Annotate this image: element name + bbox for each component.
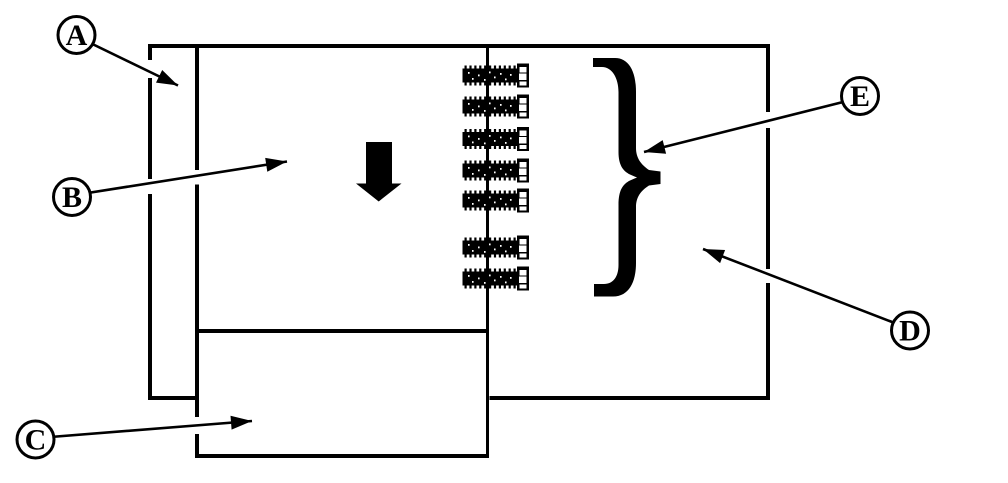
curly brace (grouping bolts, part E) — [593, 58, 661, 297]
bolt fastener (cy=139) — [463, 127, 530, 151]
bottom edge of box C — [195, 454, 489, 458]
bolt fastener (cy=200.5) — [463, 189, 530, 213]
label circle A — [58, 17, 95, 54]
bolt fastener (cy=247.5) — [463, 236, 530, 260]
leader arrow E — [644, 99, 855, 154]
divider line between B and C — [195, 329, 489, 333]
left plate edge wire (part B left edge) — [195, 44, 199, 458]
lower box interior mask (part C) — [195, 329, 490, 458]
label circle B — [54, 179, 91, 216]
label circle D — [892, 312, 929, 349]
leader arrow D — [703, 249, 905, 327]
bolt fastener (cy=106.5) — [463, 95, 530, 119]
leader arrow A — [80, 38, 178, 86]
thick down arrow (insertion direction) — [356, 142, 402, 202]
leader crossing gaps — [147, 60, 772, 434]
leader arrow C — [38, 416, 252, 438]
label circle C — [17, 421, 54, 458]
center vertical plate edge wire — [486, 44, 489, 458]
leader arrow B — [75, 158, 287, 195]
svg-text:A: A — [66, 19, 88, 52]
bolt fastener (cy=75.5) — [463, 64, 530, 88]
label circle E — [842, 78, 879, 115]
svg-text:D: D — [899, 315, 921, 348]
svg-text:C: C — [25, 424, 47, 457]
bolt fastener (cy=278.5) — [463, 267, 530, 291]
outer housing rectangle (part D region) — [150, 46, 768, 398]
svg-text:B: B — [62, 181, 82, 214]
svg-text:E: E — [850, 80, 870, 113]
bolt fastener (cy=170.5) — [463, 159, 530, 183]
